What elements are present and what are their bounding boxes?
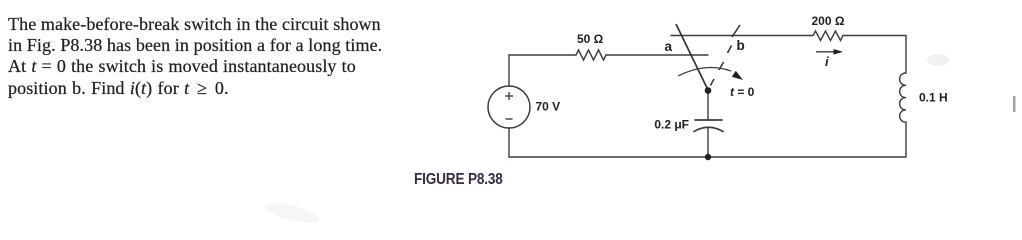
switch motion arc [678,67,731,76]
wire: upper rail from switch area to 200 ohm [671,35,813,37]
inductor L 0.1 H [900,73,906,122]
svg-text:t = 0: t = 0 [730,85,755,99]
wire: top-left rail after 50 ohm to contact a [606,54,708,56]
svg-text:70 V: 70 V [536,100,561,114]
scan artifact right edge [1013,96,1016,112]
resistor R 200 ohm [813,31,843,41]
source minus sign [506,118,513,120]
scan artifact smudge [927,54,949,66]
svg-text:50 Ω: 50 Ω [577,32,604,46]
figure caption [414,171,503,189]
svg-text:i: i [825,54,829,69]
resistor R 50 ohm [576,50,606,60]
switch dashed blade to b [711,46,732,86]
contact b slash [732,25,740,37]
capacitor C 0.2 uF curved plate [694,127,723,131]
source plus sign [505,92,513,119]
svg-text:200 Ω: 200 Ω [812,14,845,28]
switch pivot junction [705,87,712,94]
current arrow i [816,51,836,53]
capacitor C 0.2 uF top plate [695,119,722,121]
scan artifact faint bottom smudge [263,199,321,226]
svg-text:0.2 μF: 0.2 μF [654,118,689,132]
svg-text:0.1 H: 0.1 H [919,91,948,105]
junction node (capacitor / bottom rail) [705,154,711,160]
wire: capacitor branch lower [707,128,709,157]
svg-text:a: a [665,39,673,54]
wire: right vertical below inductor [905,122,907,157]
wire: left vertical top (source to top rail) [508,55,510,86]
problem text [8,14,408,100]
switch motion arrowhead [732,71,743,80]
wire: bottom rail [509,156,906,158]
wire: upper rail after 200 ohm to top-right corner [843,36,906,74]
switch blade (position a) [676,24,708,90]
wire: capacitor branch upper [707,93,709,120]
wire: top-left rail before 50 ohm [509,54,576,56]
svg-text:b: b [737,38,745,53]
voltage source Vs 70 V [488,86,530,128]
wire: left vertical bottom (source to bottom rail) [508,128,510,157]
